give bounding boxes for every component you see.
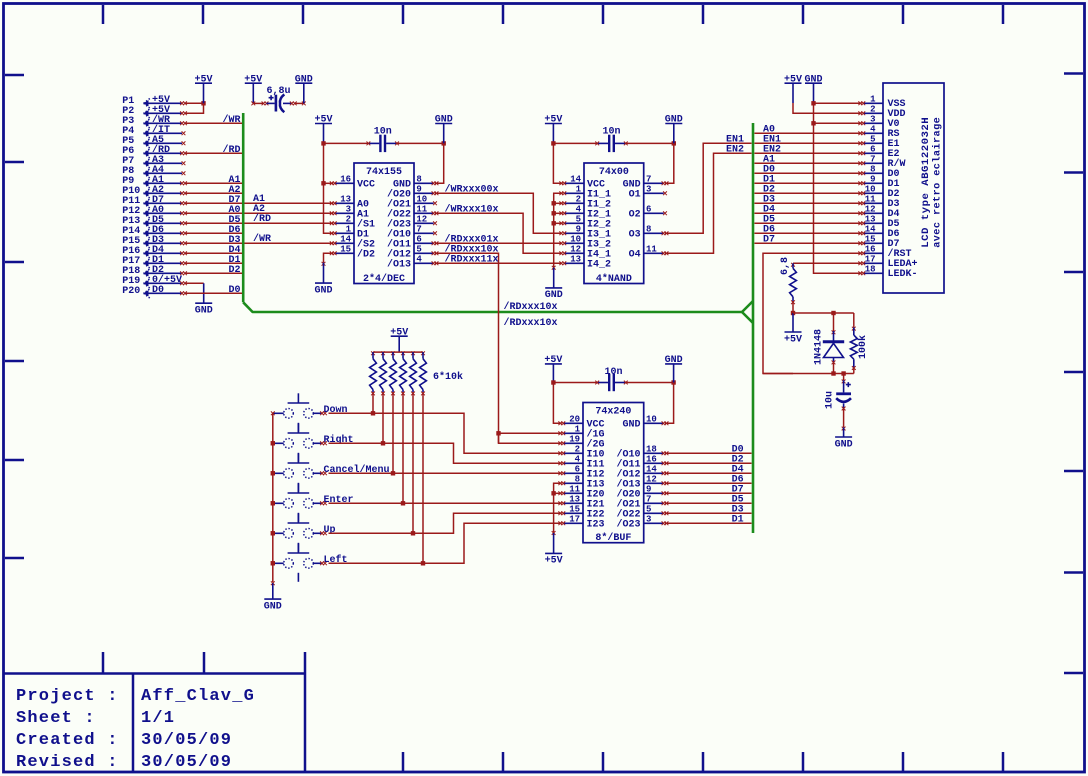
wire button common rail [272,413,274,582]
svg-text:1: 1 [346,224,352,234]
IC3 pin 12 /O13 [616,474,663,490]
ground GND symbol for C2 [435,115,453,144]
svg-text:/RDxxx10x: /RDxxx10x [504,301,558,313]
wire P1 to +5V [185,102,204,104]
svg-text:7: 7 [646,494,651,504]
connector pin P4 (/IT) [122,124,182,137]
connector pin P10 (A2) [122,185,182,197]
pin end IC1-1 [330,231,334,235]
svg-text:6,8u: 6,8u [267,86,291,97]
wire node to diode and R8 [793,312,854,314]
ground GND symbol for C5 [665,355,683,382]
wire RN1-3 to button row [392,392,394,473]
svg-text:O2: O2 [629,210,641,221]
svg-text:D2: D2 [228,265,240,276]
wire diode bottom [833,363,835,374]
svg-text:GND: GND [545,290,563,301]
resistor RN1 10k #3 [390,352,397,392]
svg-text:12: 12 [865,204,876,214]
LCD pin 12 D4 [863,204,900,220]
IC3 pin 9 /O20 [616,484,663,500]
LCD pin 17 LEDA+ [863,254,918,270]
wire R7 to +5V node [792,301,794,313]
wire IC2 unused inputs to GND rail [554,193,563,267]
svg-text:5: 5 [870,134,875,144]
svg-text:10: 10 [416,194,427,204]
svg-text:Up: Up [324,525,336,536]
pin end P19 [180,281,184,285]
svg-text:Down: Down [324,405,348,416]
connector pin P5 (A5) [122,135,182,147]
wire net /RDxxx01x from IC1 /O11 to IC2 I3_2 [435,242,562,244]
pin end IC2-6 [663,211,667,215]
svg-text:11: 11 [569,484,580,494]
power +5V symbol above P1 [194,74,212,103]
pin end RN1-2 top [381,351,385,355]
svg-text:/WRxxx00x: /WRxxx00x [445,184,499,196]
LCD pin 15 D7 [863,234,900,250]
pin end P16 [180,251,184,255]
svg-text:30/05/09: 30/05/09 [141,731,232,750]
pin end GND stub buttons [271,581,275,585]
svg-text:LCD type ABG122032H: LCD type ABG122032H [920,117,932,248]
resistor R7 6,8 vertical [790,263,797,301]
pin end IC1-12 [433,221,437,225]
svg-text:1: 1 [870,94,876,104]
pin end IC2-14 [559,181,563,185]
op LCD connector box ABG122032H [883,83,944,293]
pin end RN1-3 top [391,351,395,355]
pin end IC3-6 [558,471,562,475]
IC1 pin 9 /O20 [387,184,434,200]
wire net /WRxxx00x from IC1 /O20 to IC2 I3_1 [435,193,562,233]
svg-text:4: 4 [576,204,582,214]
svg-text:Revised :: Revised : [16,753,119,772]
wire R8 branch down [853,313,855,327]
svg-text:14: 14 [340,234,351,244]
svg-text:8*/BUF: 8*/BUF [595,532,631,544]
connector pin P17 (D1) [122,255,182,267]
wire net D7 from IC3 to bus [665,492,752,494]
connector pin P6 (/RD) [122,144,182,157]
svg-text:D7: D7 [763,235,775,246]
pin end RN1-2 bottom [381,392,385,396]
pin end RN1-5 bottom [411,392,415,396]
LCD pin 9 D1 [863,174,900,190]
IC3 pin 3 /O23 [616,514,663,530]
IC3 pin 20 VCC [563,414,605,430]
svg-text:1: 1 [575,424,581,434]
connector pin P9 (A1) [122,175,182,187]
pin end IC3-20 [558,421,562,425]
pin end IC1-15 [330,251,334,255]
IC3 pin 1 /1G [563,424,605,440]
power +5V symbol below IC3 [545,533,563,567]
pin end LCD-17 [858,261,862,265]
IC2 pin 7 GND [623,174,664,190]
IC3 pin 5 /O22 [616,504,663,520]
IC3 pin 13 I21 [563,494,605,510]
wire I20 stub [554,492,562,494]
pin end IC2-1 [559,191,563,195]
IC3 pin 6 I12 [563,464,605,480]
wire net D0 from P20 to bus [185,292,242,294]
IC2 pin 1 I1_1 [564,184,611,200]
junction RN1-6 [421,561,425,565]
svg-text:10: 10 [570,234,581,244]
IC3 pin 14 /O12 [616,464,663,480]
pin end IC3-7 [662,501,666,505]
IC1 pin 4 /O13 [387,254,434,270]
wire RN1-6 to button row [422,392,424,563]
pin end GND stub [322,262,326,266]
pin end IC3-8 [558,481,562,485]
pin end P1 [180,101,184,105]
wire net D0 from IC3 to bus [665,452,752,454]
svg-text:6: 6 [646,204,651,214]
wire Enter to IC3 I21 [329,502,562,504]
junction /1G [496,431,500,435]
svg-text:/RDxxx10x: /RDxxx10x [504,317,558,329]
svg-text:Aff_Clav_G: Aff_Clav_G [141,687,255,706]
power +5V symbol for C3 [544,115,562,144]
open pin end P8 [182,171,186,175]
pin end IC3-19 [558,441,562,445]
wire P2 to +5V vertical [185,103,204,113]
power +5V symbol RN1 [390,327,408,352]
wire Left to IC3 I23 [329,523,562,563]
pin end IC3-1 [558,431,562,435]
pin end LCD-9 [858,181,862,185]
svg-text:74x240: 74x240 [595,407,631,418]
junction I20 pull-up [551,491,555,495]
junction common rail S4 [271,501,275,505]
wire I2_2 stub [554,222,563,224]
junction cap branch [841,371,845,375]
wire net D6 from P14 to bus [185,232,242,234]
switch S2 Right [273,423,323,462]
svg-text:O3: O3 [629,230,641,241]
svg-text:18: 18 [865,264,876,274]
connector pin P12 (A0) [122,205,182,217]
pin end IC1-2 [330,221,334,225]
pin end IC3-3 [662,521,666,525]
wire diode branch down [833,313,835,331]
LCD pin 8 D0 [863,164,900,180]
junction common rail S5 [271,531,275,535]
wire +5V down to IC3 VCC [553,383,561,424]
pin end LCD-15 [858,241,862,245]
pin end IC3-18 [662,451,666,455]
IC3 pin 8 I13 [563,474,605,490]
junction I2_1 [552,211,556,215]
connector pin P18 (D2) [122,265,182,277]
svg-text:4: 4 [416,254,422,264]
wire C4 to GND [843,409,845,428]
wire RN1-4 to button row [402,392,404,503]
pin end P17 [180,261,184,265]
svg-text:/O23: /O23 [616,519,640,531]
svg-text:10n: 10n [374,127,392,138]
pin end RN1-3 bottom [391,392,395,396]
pin end P15 [180,241,184,245]
IC1 pin 1 D1 [335,224,370,240]
IC3 pin 10 GND [622,414,663,430]
title block box [3,652,305,771]
wire net EN2 from bus to LCD pin 6 [755,152,862,154]
junction +5V / C3 [551,141,555,145]
wire net D0 from bus to LCD pin 8 [755,172,862,174]
svg-text:6*10k: 6*10k [433,371,463,383]
pin end LCD-13 [858,221,862,225]
switch S4 Enter [273,483,323,522]
connector P1-P20 chevron chain [144,98,151,298]
wire net D4 from bus to LCD pin 12 [755,212,862,214]
pin end R8 bottom [852,366,856,370]
IC1 pin 7 /O10 [387,224,434,240]
wire LEDA+ to R7 [793,262,862,264]
connector pin P1 (+5V) [122,95,182,107]
wire net D2 from P18 to bus [185,272,242,274]
pin end IC2-13 [559,261,563,265]
IC3 pin 4 I11 [563,454,605,470]
svg-text:4: 4 [870,124,876,134]
svg-text:30/05/09: 30/05/09 [141,753,232,772]
IC1 pin 6 /O11 [387,234,434,250]
IC2 pin 13 I4_2 [564,254,611,270]
wire net D4 from IC3 to bus [665,472,752,474]
wire Cancel/Menu to IC3 I12 [329,472,562,474]
svg-text:I4_2: I4_2 [587,260,611,271]
svg-text:8: 8 [646,224,651,234]
pin end IC2-8 [662,231,666,235]
wire net D6 from IC3 to bus [665,482,752,484]
pin end IC2-3 [663,191,667,195]
pin end IC2-12 [559,251,563,255]
svg-text:D0: D0 [152,285,164,296]
svg-text:7: 7 [646,174,651,184]
wire I2_1 stub [554,212,563,214]
connector pin P8 (A4) [122,165,182,177]
svg-text:13: 13 [340,194,351,204]
IC1 pin 13 A0 [335,194,370,210]
wire net D3 from bus to LCD pin 11 [755,202,862,204]
connector pin P16 (D4) [122,245,182,257]
IC2 pin 8 O3 [629,224,664,240]
svg-text:8: 8 [870,164,875,174]
wire net /RDxxx10x from IC1 /O12 down to IC3 [435,253,499,443]
ground GND symbol below P19 [195,283,213,316]
pin end IC2-4 [559,211,563,215]
pin end IC1-5 [432,251,436,255]
svg-text:/WRxxx10x: /WRxxx10x [445,204,499,216]
pin end D1 top [832,330,836,334]
svg-text:I23: I23 [587,520,605,531]
wire VCC stub [324,182,334,184]
resistor RN1 10k #4 [400,352,407,392]
pin end RN1-5 top [411,351,415,355]
ground GND symbol below IC2 [545,268,563,301]
wire RN1-2 to button row [382,392,384,443]
wire +5V down to IC2 VCC [553,143,562,183]
svg-text:11: 11 [416,204,427,214]
connector pin P15 (D3) [122,235,182,247]
pin end P6 [180,151,184,155]
LCD pin 14 D6 [863,224,900,240]
IC3 pin 18 /O10 [616,444,663,460]
LCD pin 18 LEDK- [863,264,918,280]
wire Down to IC3 I10 [329,413,562,453]
pin end P3 [180,121,184,125]
connector pin P11 (D7) [122,195,182,207]
svg-text:GND: GND [195,305,213,316]
svg-text:9: 9 [416,184,421,194]
wire bus to IC1 /S2 (net /WR) [245,242,334,244]
svg-text:+5V: +5V [784,334,802,345]
svg-text:/RD: /RD [253,213,271,225]
IC1 pin 15 /D2 [335,244,376,260]
pin end +5V stub IC3 [552,531,556,535]
pin end LCD-1 [858,101,862,105]
pin end IC3-11 [558,491,562,495]
svg-text:18: 18 [646,444,657,454]
svg-text:6: 6 [870,144,875,154]
IC3 pin 19 /2G [563,434,605,450]
pin end IC3-4 [558,461,562,465]
pin end RN1-6 top [421,351,425,355]
wire GND to VSS [814,102,862,104]
pin end RN1-4 top [401,351,405,355]
wire net D7 from P11 to bus [185,202,242,204]
svg-text:VCC: VCC [357,180,375,191]
wire /2G connection [499,433,562,443]
svg-text:17: 17 [865,254,876,264]
svg-text:10u: 10u [825,391,836,409]
IC1 pin 14 /S2 [335,234,376,250]
LCD pin 1 VSS [863,94,906,110]
svg-text:16: 16 [340,174,351,184]
pin end LCD-18 [858,271,862,275]
wire net D5 from bus to LCD pin 13 [755,222,862,224]
wire bottom node row [763,373,854,375]
junction RN1-5 [411,531,415,535]
ground GND symbol below buttons [264,583,282,612]
connector pin P13 (D5) [122,215,182,227]
wire RN1-1 to button row [372,392,374,413]
svg-text:GND: GND [835,439,853,450]
IC1 pin 2 /S1 [335,214,376,230]
junction RN1-2 [381,441,385,445]
wire C3 left [553,142,597,144]
wire net D0 from P20 to bus [185,292,242,294]
IC1 pin 16 VCC [335,174,376,190]
IC1 pin 12 /O23 [387,214,434,230]
svg-text:3: 3 [646,514,651,524]
wire C2 left [324,142,369,144]
junction +5V / C2 [321,141,325,145]
svg-text:avec retro eclairage: avec retro eclairage [932,117,944,248]
junction GND/V0 [811,121,815,125]
frame tick marks top [103,5,1003,24]
switch S6 Left [273,543,323,582]
svg-text:3: 3 [346,204,351,214]
pin end IC3-16 [662,461,666,465]
resistor RN1 10k #5 [410,352,417,392]
open pin end P4 [182,131,186,135]
svg-text:15: 15 [569,504,580,514]
junction VCC rail [321,181,325,185]
svg-text:13: 13 [570,254,581,264]
pin end LCD-7 [858,161,862,165]
junction C5 / GND [671,380,675,384]
pin end IC1-13 [330,201,334,205]
ground GND symbol for C3 [665,115,683,144]
svg-text:/D2: /D2 [357,249,375,261]
power +5V symbol LCD [784,74,802,103]
pin end P13 [180,221,184,225]
junction GND/VSS [811,101,815,105]
pin end IC2-2 [559,201,563,205]
pin end P14 [180,231,184,235]
LCD pin 16 /RST [863,244,912,260]
svg-text:/RDxxx11x: /RDxxx11x [445,254,499,266]
op IC3 74x240 buffer box [583,403,644,543]
svg-text:/RD: /RD [222,144,240,156]
svg-text:74x00: 74x00 [599,167,629,178]
resistor RN1 10k #6 [420,352,427,392]
IC1 pin 11 /O22 [387,204,434,220]
wire net EN1 from bus to LCD pin 5 [755,142,862,144]
svg-text:13: 13 [569,494,580,504]
switch S5 Up [273,513,323,552]
wire I1_2 stub [554,202,563,204]
IC1 pin 10 /O21 [387,194,434,210]
pin end GND stub C4 [842,427,846,431]
pin end P20 [180,291,184,295]
wire C3 right [626,142,674,144]
diode D1 1N4148 [823,331,844,363]
resistor RN1 10k #1 [370,352,377,392]
svg-text:/WR: /WR [253,233,271,245]
bus left vertical [242,113,245,302]
svg-text:2: 2 [576,194,581,204]
svg-text:5: 5 [416,244,421,254]
pin end GND stub IC2 [552,266,556,270]
IC3 pin 17 I23 [563,514,605,530]
junction RN1-1 [371,411,375,415]
wire net D7 from bus to LCD pin 15 [755,242,862,244]
connector pin P19 (0/+5V) [122,274,182,287]
svg-text:12: 12 [416,214,427,224]
pin end P10 [180,191,184,195]
svg-text:O1: O1 [629,190,641,201]
bus bottom horizontal [243,302,742,312]
svg-text:7: 7 [416,224,421,234]
wire GND rail down to LEDK- [814,103,862,273]
pin end IC2-10 [559,241,563,245]
pin end IC2-7 [662,181,666,185]
wire Up to IC3 I22 [329,513,562,533]
pin end IC3-12 [662,481,666,485]
LCD pin 7 R/W [863,154,906,170]
IC2 pin 14 VCC [564,174,605,190]
pin end RN1-1 bottom [371,392,375,396]
connector pin P3 (/WR) [122,114,182,127]
svg-text:11: 11 [865,194,876,204]
junction C3 / GND [672,141,676,145]
power +5V symbol for C1 [244,74,262,103]
svg-text:+5V: +5V [545,556,563,567]
